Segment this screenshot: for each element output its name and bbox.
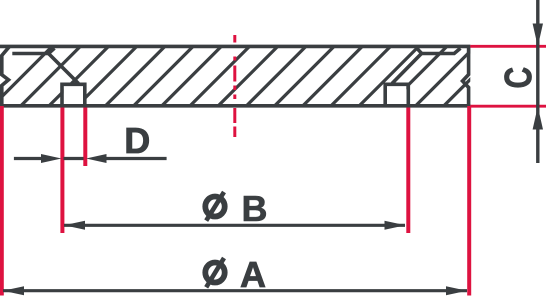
OA right xyxy=(467,106,471,296)
hatching of flange section xyxy=(0,45,505,106)
C arrow up-pointing xyxy=(533,107,543,130)
OB/D shared left xyxy=(60,108,64,234)
flange right edge with notch xyxy=(463,46,469,105)
top face groove left: floor xyxy=(12,52,48,56)
svg-text:D: D xyxy=(124,120,150,161)
OB label: diameter symbol xyxy=(205,192,224,221)
cone line left xyxy=(49,54,79,84)
OA arrow left-pointing xyxy=(3,286,24,295)
OA label: diameter symbol xyxy=(205,258,224,287)
cone line right xyxy=(392,54,422,84)
inner chamfer left xyxy=(49,48,55,53)
dimension OA xyxy=(3,289,467,292)
dimension D xyxy=(14,157,167,160)
svg-text:B: B xyxy=(242,188,268,229)
flange bottom edge xyxy=(0,104,470,108)
OB arrow right-pointing xyxy=(385,221,406,230)
o-ring groove left outline xyxy=(62,84,85,106)
dimension C vertical line xyxy=(536,0,539,163)
flange top edge xyxy=(0,45,470,49)
OA left xyxy=(0,106,4,296)
red extension lines (vertical) xyxy=(2,106,469,296)
o-ring groove right (erase hatch inside) xyxy=(387,84,407,105)
o-ring groove right outline xyxy=(385,84,408,106)
OB right xyxy=(406,108,410,234)
D right xyxy=(83,108,87,167)
OB arrow left-pointing xyxy=(64,221,85,230)
inner chamfer right xyxy=(417,48,422,54)
flange left edge with break notch xyxy=(2,46,10,105)
OA arrow right-pointing xyxy=(446,286,467,295)
D arrow left-pointing xyxy=(86,154,107,163)
red extension lines for C (horizontal) xyxy=(470,46,546,106)
C arrow down-pointing xyxy=(533,24,543,47)
svg-text:A: A xyxy=(240,254,266,295)
o-ring groove left (erase hatch inside) xyxy=(64,84,84,105)
dimension OB xyxy=(64,224,405,227)
D arrow right-pointing xyxy=(41,154,62,163)
centerline (red dash-dot) xyxy=(233,35,236,137)
top face groove right: floor + chamfer xyxy=(422,48,461,53)
svg-text:C: C xyxy=(498,67,540,89)
